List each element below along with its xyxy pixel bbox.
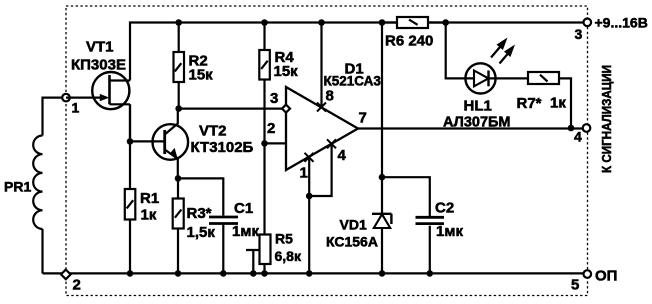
svg-text:1: 1: [300, 165, 308, 182]
svg-text:8: 8: [326, 88, 334, 105]
svg-text:+9...16В: +9...16В: [595, 15, 648, 31]
junction chassis stub bottom: [250, 270, 257, 277]
wire pin1: [308, 157, 310, 273]
junction VD1 bottom: [379, 270, 386, 277]
resistor R1: [125, 189, 136, 273]
LED HL1: [465, 63, 495, 93]
svg-text:С2: С2: [435, 200, 454, 217]
terminal 4: [583, 124, 591, 132]
junction HL1 branch top: [442, 19, 449, 26]
chassis stub: [246, 250, 259, 273]
svg-text:7: 7: [359, 110, 367, 127]
junction VD1 feed top: [379, 19, 386, 26]
capacitor C1: [209, 217, 238, 224]
svg-text:КС156А: КС156А: [326, 234, 378, 250]
wire VT1 gate: [66, 96, 101, 98]
node pin1 cross: [305, 153, 314, 162]
svg-text:3: 3: [270, 90, 278, 107]
junction pin1 pin4 node: [306, 193, 313, 200]
svg-text:R5: R5: [275, 231, 293, 247]
svg-text:1мк: 1мк: [232, 223, 259, 240]
dashed enclosure border: [66, 6, 588, 296]
svg-text:PR1: PR1: [4, 179, 31, 195]
terminal 1: [62, 94, 70, 102]
terminal 3: [584, 19, 592, 27]
resistor R4: [259, 23, 270, 144]
wire C1 branch: [178, 178, 223, 273]
svg-text:АЛ307БМ: АЛ307БМ: [443, 115, 511, 131]
wire R6 leads: [382, 21, 446, 23]
resistor R2: [174, 23, 185, 109]
junction R1 bottom: [127, 270, 134, 277]
svg-text:1: 1: [72, 100, 80, 116]
svg-text:6,8к: 6,8к: [275, 248, 302, 264]
svg-text:2: 2: [73, 277, 81, 294]
junction R4 top: [261, 19, 268, 26]
node pin4 cross: [327, 139, 336, 148]
svg-text:VD1: VD1: [340, 217, 367, 233]
resistor R6: [397, 17, 428, 28]
zener diode VD1: [372, 214, 392, 274]
resistor R3: [173, 178, 184, 273]
svg-text:ОП: ОП: [595, 268, 617, 285]
LED emission arrows: [491, 38, 515, 64]
junction VT2 emitter node: [175, 175, 182, 182]
junction VT2 collector node: [175, 105, 182, 112]
wire pin7 output: [358, 127, 584, 129]
wire R7 branch: [496, 78, 572, 128]
terminal 2: [61, 270, 71, 280]
wire common bottom rail: [43, 272, 584, 274]
terminal 5: [584, 270, 592, 278]
transistor VT2: [153, 109, 189, 179]
svg-text:2: 2: [267, 120, 275, 137]
wire R5 top lead: [263, 143, 265, 234]
resistor R5: [260, 235, 271, 274]
wire HL1 branch: [446, 23, 466, 79]
wire PR1 branch: [43, 98, 67, 274]
svg-text:1к: 1к: [550, 95, 566, 112]
transistor VT1: [92, 72, 130, 141]
svg-text:КП303Е: КП303Е: [71, 57, 126, 74]
junction VD1 C2 node: [379, 174, 386, 181]
node pin3 diamond: [282, 105, 290, 113]
wire C2 branch: [382, 177, 430, 273]
svg-text:5: 5: [571, 277, 579, 294]
wire pin4: [309, 144, 331, 196]
svg-text:КТ3102Б: КТ3102Б: [191, 139, 254, 156]
junction C2 bottom: [427, 270, 434, 277]
junction pin2 node: [261, 140, 268, 147]
svg-text:VT1: VT1: [86, 39, 114, 56]
svg-text:4: 4: [338, 147, 347, 164]
svg-text:15к: 15к: [274, 63, 299, 80]
svg-text:4: 4: [574, 129, 582, 145]
wire +V top rail: [130, 23, 584, 81]
svg-text:R3*: R3*: [187, 205, 212, 222]
svg-text:VT2: VT2: [199, 123, 227, 140]
svg-text:1к: 1к: [141, 207, 157, 224]
svg-text:К521СА3: К521СА3: [324, 74, 382, 89]
svg-text:R6 240: R6 240: [385, 33, 433, 50]
junction R7 output node: [568, 125, 575, 132]
wire VD1 feed: [381, 23, 383, 214]
wire VT2 base: [130, 140, 165, 142]
junction pin1 bottom: [306, 270, 313, 277]
node pin8 cross: [317, 103, 326, 112]
junction VT2 base node: [127, 138, 134, 145]
svg-text:К СИГНАЛИЗАЦИИ: К СИГНАЛИЗАЦИИ: [599, 65, 614, 173]
svg-text:HL1: HL1: [464, 98, 492, 115]
svg-text:3: 3: [575, 26, 583, 42]
svg-text:R7*: R7*: [517, 95, 542, 112]
op-amp D1: [286, 87, 358, 170]
svg-text:1мк: 1мк: [436, 223, 463, 240]
svg-text:1,5к: 1,5к: [187, 224, 216, 241]
junction R2 top: [175, 19, 182, 26]
svg-text:С1: С1: [234, 200, 253, 217]
wire VT1 source to R1: [129, 104, 131, 189]
svg-text:15к: 15к: [189, 67, 214, 84]
wire pin2 input: [265, 142, 287, 144]
svg-text:R1: R1: [140, 190, 159, 207]
junction pin8 top: [318, 19, 325, 26]
resistor R7: [528, 72, 559, 84]
junction C1 bottom: [220, 270, 227, 277]
junction R3 bottom: [175, 270, 182, 277]
capacitor C2: [416, 217, 445, 223]
wire pin8: [320, 23, 322, 108]
inductor PR1: [33, 136, 42, 230]
junction R5 bottom: [261, 270, 268, 277]
wire pin3 input: [179, 107, 282, 109]
